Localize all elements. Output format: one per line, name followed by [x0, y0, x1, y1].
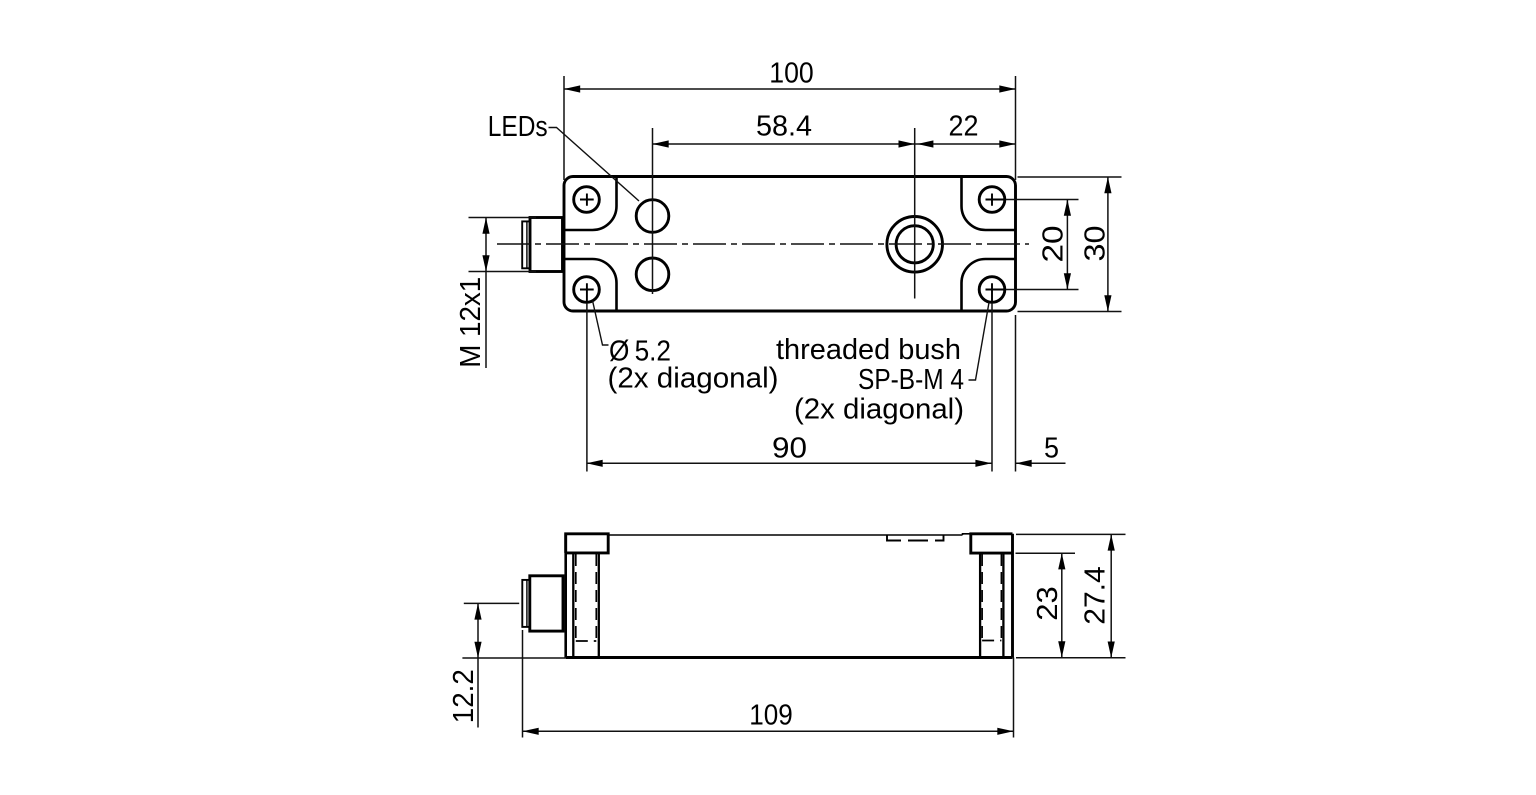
extension line through bush (58.4 right): [914, 128, 916, 299]
dim 12.2: dimension line: [477, 603, 479, 727]
dim 58.4: dimension line: [653, 143, 915, 145]
housing body (top view): [564, 177, 1016, 312]
M12 connector nut inner line (side view): [526, 580, 528, 627]
screw hole top-right cross + extension to 20 dim: [986, 194, 1007, 206]
dim 20: dimension line: [1066, 200, 1068, 290]
svg-text:30: 30: [1080, 226, 1112, 262]
label Ø5.2 leader: [593, 301, 609, 346]
dim 100: extension lines: [563, 76, 565, 180]
dim 23: extension line: [1016, 552, 1076, 554]
side view: right end cap step: [963, 534, 971, 535]
screw hole bottom-left: [574, 277, 600, 303]
dim 100: arrows: [564, 85, 580, 92]
corner pocket top-left: [565, 177, 617, 230]
dim M12x1: extension lines: [469, 217, 537, 219]
side view: body bottom edge: [566, 656, 1013, 659]
dim 109: arrows: [523, 728, 539, 735]
dim 22: dimension line: [915, 143, 1016, 145]
dim 20: arrows: [1064, 200, 1071, 216]
M12 connector body (side view): [530, 576, 563, 631]
dim 23: arrows: [1058, 553, 1065, 569]
dim 109: extension lines: [522, 630, 524, 738]
dim 30: dimension line: [1107, 177, 1109, 312]
dim 5: extension line (body edge): [1015, 315, 1017, 472]
svg-text:100: 100: [769, 58, 814, 90]
side view: body left edge: [564, 534, 567, 658]
side view: left foot hidden lines: [576, 554, 597, 641]
svg-text:23: 23: [1032, 586, 1064, 621]
svg-text:5: 5: [1044, 433, 1059, 465]
dim M12x1: dimension line: [485, 218, 487, 369]
side view: left end cap: [566, 534, 609, 553]
svg-text:threaded bush: threaded bush: [776, 334, 961, 366]
dim M12x1: arrows: [482, 218, 489, 234]
threaded bush inner circle: [896, 226, 933, 263]
M12 connector body (top view): [530, 218, 563, 272]
dim 90: arrows: [587, 460, 603, 467]
side view: right end cap: [971, 534, 1013, 553]
dim 23: dimension line: [1061, 553, 1063, 657]
svg-text:LEDs: LEDs: [488, 111, 548, 143]
svg-text:58.4: 58.4: [756, 110, 812, 142]
dim 90: dimension line: [587, 462, 992, 464]
svg-text:M 12x1: M 12x1: [455, 277, 487, 368]
dim 30: extension lines: [1018, 176, 1122, 178]
side view: body top edge: [608, 534, 962, 536]
dim 100: dimension line: [564, 88, 1016, 90]
corner pocket top-right: [962, 177, 1016, 230]
M12 connector nut inner line: [526, 221, 528, 268]
screw hole bottom-right: [979, 277, 1005, 303]
screw hole bottom-left cross + extension to 90 dim: [580, 283, 594, 303]
side view: right foot solid edges: [980, 553, 1003, 657]
centerline (dash-dot axis): [497, 243, 1029, 245]
corner pocket bottom-left: [565, 259, 617, 311]
side view: left foot solid edges: [573, 553, 599, 657]
LED hole lower: [636, 258, 669, 291]
screw hole top-left: [574, 187, 600, 213]
dim 22: arrows: [917, 140, 933, 147]
svg-text:(2x diagonal): (2x diagonal): [608, 363, 779, 395]
label SP-B-M4 leader: [969, 303, 990, 381]
side view: body right edge: [1011, 534, 1014, 658]
dim 12.2: extension lines: [464, 602, 519, 604]
svg-text:12.2: 12.2: [448, 669, 480, 723]
screw hole top-left cross: [580, 194, 594, 206]
M12 connector nut (side view): [522, 580, 530, 627]
dim 109: dimension line: [523, 730, 1014, 732]
dim 58.4: arrows: [653, 140, 669, 147]
dim 5: dimension line with outside arrow: [1016, 462, 1066, 464]
svg-text:20: 20: [1037, 226, 1069, 263]
screw hole bottom-right cross + extensions: [986, 283, 1007, 303]
svg-text:(2x diagonal): (2x diagonal): [794, 394, 964, 426]
dim 27.4: arrows: [1108, 534, 1115, 550]
dim 30: arrows: [1104, 177, 1111, 193]
extension line through LEDs (58.4 left): [652, 128, 654, 294]
side view: hidden slot at top: [887, 535, 944, 541]
svg-text:22: 22: [949, 110, 979, 142]
M12 connector nut (top view): [522, 221, 530, 268]
dim 27.4: extension lines: [1016, 533, 1126, 535]
svg-text:90: 90: [772, 433, 807, 465]
dim 27.4: dimension line: [1110, 534, 1112, 657]
LED hole upper: [636, 200, 669, 233]
svg-text:27.4: 27.4: [1080, 566, 1112, 625]
corner pocket bottom-right: [962, 259, 1016, 311]
screw hole top-right: [979, 187, 1005, 213]
label LEDs leader: [549, 128, 640, 202]
svg-text:109: 109: [749, 700, 793, 732]
dim 12.2: arrows: [474, 603, 481, 619]
side view: right foot hidden lines: [982, 554, 1001, 641]
svg-text:SP-B-M 4: SP-B-M 4: [858, 364, 964, 396]
threaded bush outer circle: [887, 217, 943, 273]
